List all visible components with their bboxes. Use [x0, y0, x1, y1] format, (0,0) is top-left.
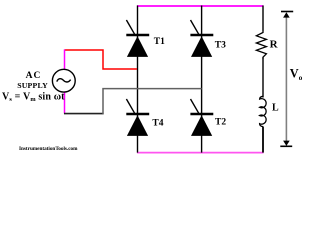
- wire bottom rail (pink): [137, 152, 264, 154]
- label Vo: [290, 67, 303, 83]
- wire load branch bottom: [262, 127, 264, 153]
- label AC SUPPLY: [17, 71, 48, 90]
- thyristor T1: [126, 20, 149, 57]
- svg-text:T4: T4: [152, 119, 163, 129]
- label T4: [152, 119, 163, 129]
- label L: [272, 103, 279, 114]
- AC source circle: [52, 69, 75, 92]
- label T2: [215, 118, 226, 128]
- svg-text:Vs = Vm sin ωt: Vs = Vm sin ωt: [2, 92, 65, 104]
- svg-text:T3: T3: [215, 41, 226, 51]
- watermark InstrumentationTools.com: [19, 146, 78, 152]
- wire load branch middle: [262, 58, 264, 98]
- svg-text:T2: T2: [215, 118, 226, 128]
- inductor L: [260, 96, 267, 126]
- thyristor T2: [190, 99, 213, 136]
- label source voltage formula Vs = Vm sin wt: [2, 92, 65, 104]
- wire magenta stub source bottom: [64, 92, 66, 114]
- svg-text:AC: AC: [26, 71, 42, 81]
- thyristor T3: [190, 20, 213, 57]
- wire top positive rail (magenta): [137, 5, 264, 7]
- thyristor T4: [126, 99, 149, 136]
- label T1: [154, 37, 165, 47]
- svg-text:L: L: [272, 103, 279, 114]
- label R: [270, 39, 279, 51]
- svg-text:R: R: [270, 39, 279, 51]
- label T3: [215, 41, 226, 51]
- svg-text:SUPPLY: SUPPLY: [17, 81, 48, 90]
- svg-text:V: V: [290, 67, 299, 81]
- resistor R: [256, 31, 266, 59]
- wire gray supply return (bottom): [64, 89, 202, 115]
- wire red supply phase (top): [65, 50, 138, 69]
- wire load branch top: [262, 6, 264, 32]
- svg-text:T1: T1: [154, 37, 165, 47]
- wire magenta stub source top: [64, 49, 66, 69]
- wire left bridge leg: [137, 6, 139, 153]
- svg-text:InstrumentationTools.com: InstrumentationTools.com: [19, 146, 78, 152]
- Vo dimension arrow: [280, 12, 293, 147]
- wire right bridge leg: [201, 6, 203, 153]
- svg-text:o: o: [299, 74, 303, 82]
